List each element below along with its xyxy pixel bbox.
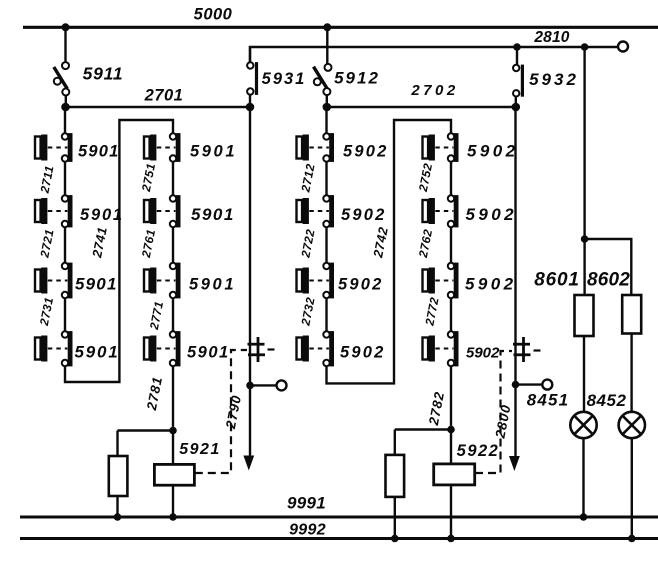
wire 2782 <box>450 366 452 426</box>
svg-text:5931: 5931 <box>262 70 307 88</box>
dashed link lamp 5901 (column B row 4) <box>157 348 176 350</box>
wire feeder right (from 2702) <box>514 107 516 382</box>
wire segment column C <box>325 227 327 262</box>
wire 5000 to switch 5911 <box>64 27 66 62</box>
wire segment column A <box>64 298 66 331</box>
dashed link 2800 relay to plug <box>475 351 512 473</box>
wire segment column C <box>325 162 327 195</box>
wire resistor to 9991 <box>116 496 118 517</box>
door contact 5901 (column B row 1) <box>170 133 181 162</box>
relay coil 5921 <box>154 464 194 485</box>
terminal (left) <box>277 380 287 390</box>
terminal (right) <box>542 380 552 390</box>
dashed link 2790 tail <box>268 348 280 350</box>
wire 2702 to column C <box>325 107 327 133</box>
junction 8601/8602 split <box>581 235 589 243</box>
switch 5932 <box>513 65 524 97</box>
svg-text:5901: 5901 <box>187 343 230 361</box>
wire 2810 to resistors <box>583 47 585 239</box>
dashed link 2790 relay to plug <box>195 350 247 473</box>
signal lamp 8452 <box>619 412 645 438</box>
svg-text:5932: 5932 <box>529 70 579 89</box>
svg-text:2701: 2701 <box>144 87 184 105</box>
junction 2702 left <box>323 103 332 112</box>
svg-text:5902: 5902 <box>338 275 384 293</box>
wire branch to 8602 <box>585 239 632 295</box>
junction 2810/5932 <box>513 43 521 51</box>
wire segment column D <box>450 298 452 331</box>
dashed link lamp 5901 (column B row 2) <box>157 210 176 212</box>
wire 2742 column C bottom to column D top <box>327 120 452 383</box>
door contact 5902 (column C row 1) <box>323 133 334 162</box>
svg-text:5901: 5901 <box>80 206 124 224</box>
svg-text:5901: 5901 <box>190 142 237 160</box>
lamp 5901 (column A row 4) <box>35 336 47 362</box>
wire segment column C <box>325 298 327 331</box>
door contact 5901 (column A row 1) <box>62 133 73 162</box>
resistor 8601 <box>575 295 594 336</box>
junction resistor/9991 <box>114 513 122 521</box>
junction feeder/terminal <box>246 382 254 390</box>
lamp 5902 (column C row 2) <box>297 198 309 224</box>
wire feeder left (from 2701) <box>249 107 251 382</box>
dashed link lamp 5902 (column C row 3) <box>309 280 329 282</box>
resistor (left branch) <box>109 456 128 496</box>
junction 2782 node <box>447 426 455 434</box>
lamp 5901 (column A row 2) <box>35 198 47 224</box>
switch 5911 <box>54 62 70 95</box>
wire bus 2810 <box>250 47 618 63</box>
wire relay 5922 to 9992 <box>450 485 452 539</box>
junction 8451/9991 <box>580 513 588 521</box>
wire bus 5000 <box>23 26 658 29</box>
door contact 5901 (column A row 2) <box>62 195 73 227</box>
door contact 5901 (column B row 4) <box>170 331 181 366</box>
dashed link lamp 5901 (column A row 4) <box>48 348 68 350</box>
wire 2810 to switch 5932 <box>516 47 518 65</box>
svg-text:5901: 5901 <box>189 275 236 293</box>
dashed link lamp 5902 (column D row 1) <box>435 147 453 149</box>
lamp 5901 (column A row 1) <box>35 135 47 161</box>
wire to terminal <box>250 384 277 386</box>
plug connector symbol (left) <box>248 337 266 362</box>
wire switch 5911 to 2701 <box>65 95 67 107</box>
svg-text:5911: 5911 <box>83 64 124 84</box>
svg-text:5902: 5902 <box>341 206 387 224</box>
door contact 5901 (column B row 2) <box>170 195 181 227</box>
svg-text:5912: 5912 <box>334 69 380 88</box>
resistor (right branch) <box>386 455 405 497</box>
lamp 5902 (column D row 2) <box>423 198 435 224</box>
junction relay/9992 <box>447 535 455 543</box>
wire 2781 <box>172 366 174 427</box>
svg-text:8451: 8451 <box>527 391 570 410</box>
lamp 5902 (column D row 4) <box>423 336 435 362</box>
wire resistor 8602 to lamp 8452 <box>630 334 632 412</box>
svg-text:8601: 8601 <box>534 270 579 291</box>
dashed link lamp 5901 (column A row 2) <box>48 210 68 212</box>
wire resistor 8601 to lamp 8451 <box>583 336 585 412</box>
svg-text:5902: 5902 <box>340 343 386 361</box>
junction 2810/8601 branch <box>581 43 589 51</box>
door contact 5902 (column C row 2) <box>323 195 334 227</box>
svg-text:5922: 5922 <box>457 442 500 460</box>
wire to resistor 8601 <box>583 239 585 295</box>
arrow to other circuits (left) <box>243 456 254 471</box>
wire segment column D <box>450 227 452 262</box>
wire 2741 column A bottom to column B top <box>65 120 173 382</box>
door contact 5902 (column C row 3) <box>323 263 334 299</box>
junction relay/9991 <box>169 513 177 521</box>
wire junction to resistor branch <box>118 429 174 431</box>
dashed link lamp 5902 (column C row 4) <box>309 348 329 350</box>
wire lamp 8452 to 9992 <box>631 438 633 538</box>
door contact 5902 (column C row 4) <box>323 331 334 366</box>
svg-text:5000: 5000 <box>194 6 233 24</box>
wire segment column A <box>64 227 66 262</box>
wire relay 5921 to 9991 <box>172 485 174 517</box>
wire segment column B <box>172 162 174 195</box>
wire 5000 to switch 5912 <box>326 27 328 64</box>
lamp 5902 (column D row 3) <box>423 268 435 294</box>
wire feeder to arrow <box>249 385 251 457</box>
lamp 5901 (column B row 3) <box>144 268 156 294</box>
junction 5000/5911 <box>62 23 70 31</box>
dashed link lamp 5901 (column B row 3) <box>157 280 176 282</box>
junction 5000/5912 <box>323 23 331 31</box>
plug connector symbol (right) <box>513 337 531 362</box>
lamp 5902 (column C row 3) <box>297 268 309 294</box>
lamp 5901 (column B row 2) <box>144 198 156 224</box>
svg-text:5901: 5901 <box>191 205 235 224</box>
wire 2702 <box>327 106 516 109</box>
wire resistor to 9992 <box>394 497 396 539</box>
svg-text:5902: 5902 <box>466 205 517 224</box>
wire lamp 8451 to 9991 <box>582 438 584 517</box>
wire to terminal (right) <box>516 383 543 385</box>
resistor 8602 <box>622 295 641 334</box>
junction 2781 node <box>169 427 177 435</box>
door contact 5902 (column D row 1) <box>448 133 459 162</box>
junction 8452/9992 <box>628 535 636 543</box>
junction 2701 right / feeder 2790 <box>246 103 255 112</box>
dashed link lamp 5901 (column B row 1) <box>157 147 176 149</box>
wire junction to relay 5921 <box>172 431 174 465</box>
lamp 5901 (column A row 3) <box>35 268 47 294</box>
dashed link lamp 5902 (column C row 1) <box>309 147 329 149</box>
junction 2701 left <box>61 103 70 112</box>
wire down to resistor <box>116 431 118 457</box>
wire 2701 <box>66 106 251 109</box>
wire 2701 to column A <box>64 107 66 133</box>
dashed link lamp 5902 (column C row 2) <box>309 210 329 212</box>
junction feeder/terminal (right) <box>512 381 520 389</box>
switch 5912 <box>314 64 332 95</box>
wire segment column D <box>450 162 452 195</box>
svg-text:8602: 8602 <box>587 270 630 291</box>
door contact 5902 (column D row 3) <box>448 263 459 299</box>
junction resistor/9992 <box>391 535 399 543</box>
wire feeder to arrow (right) <box>514 385 516 457</box>
svg-text:9991: 9991 <box>287 494 326 513</box>
lamp 5901 (column B row 1) <box>144 135 156 161</box>
svg-text:5901: 5901 <box>78 142 120 160</box>
wire segment column B <box>172 227 174 262</box>
svg-text:8452: 8452 <box>587 391 627 410</box>
dashed link 2800 tail <box>534 349 546 351</box>
lamp 5902 (column C row 4) <box>297 336 309 362</box>
wire switch 5931 to 2701 <box>249 95 251 107</box>
door contact 5901 (column B row 3) <box>170 263 181 299</box>
svg-text:5902: 5902 <box>343 142 389 160</box>
relay coil 5922 <box>434 464 475 485</box>
svg-text:5902: 5902 <box>465 274 516 293</box>
svg-text:9992: 9992 <box>289 522 326 539</box>
svg-text:5901: 5901 <box>75 342 120 361</box>
dashed link lamp 5902 (column D row 3) <box>435 280 453 282</box>
svg-text:2702: 2702 <box>410 82 458 99</box>
svg-text:5902: 5902 <box>467 141 518 160</box>
dashed link lamp 5901 (column A row 3) <box>48 280 68 282</box>
door contact 5902 (column D row 2) <box>448 195 459 227</box>
terminal 2810 <box>618 42 628 52</box>
wire bus 9991 <box>20 516 658 519</box>
wire segment column A <box>64 162 66 195</box>
dashed link lamp 5902 (column D row 2) <box>435 210 453 212</box>
junction 2702 right / feeder 2800 <box>512 103 521 112</box>
switch 5931 <box>247 62 258 95</box>
door contact 5901 (column A row 4) <box>62 331 73 366</box>
lamp 5901 (column B row 4) <box>144 336 156 362</box>
door contact 5901 (column A row 3) <box>62 263 73 299</box>
wire segment column B <box>172 298 174 331</box>
lamp 5902 (column D row 1) <box>423 135 435 161</box>
wire down to resistor (right) <box>394 430 396 455</box>
wire switch 5932 to 2702 <box>515 97 517 108</box>
dashed link lamp 5902 (column D row 4) <box>435 348 453 350</box>
wire bus 9992 <box>20 537 658 540</box>
wire junction to relay 5922 <box>450 430 452 464</box>
svg-text:2810: 2810 <box>533 29 569 46</box>
dashed link lamp 5901 (column A row 1) <box>48 147 68 149</box>
svg-text:5902: 5902 <box>466 344 500 361</box>
svg-text:5921: 5921 <box>179 441 221 458</box>
svg-text:5901: 5901 <box>75 274 118 293</box>
lamp 5902 (column C row 1) <box>297 135 309 161</box>
wire switch 5912 to 2702 <box>326 95 328 107</box>
arrow to other circuits (right) <box>509 456 520 471</box>
door contact 5902 (column D row 4) <box>448 331 459 366</box>
wire junction to resistor branch (right) <box>395 428 451 430</box>
signal lamp 8451 <box>570 412 596 438</box>
